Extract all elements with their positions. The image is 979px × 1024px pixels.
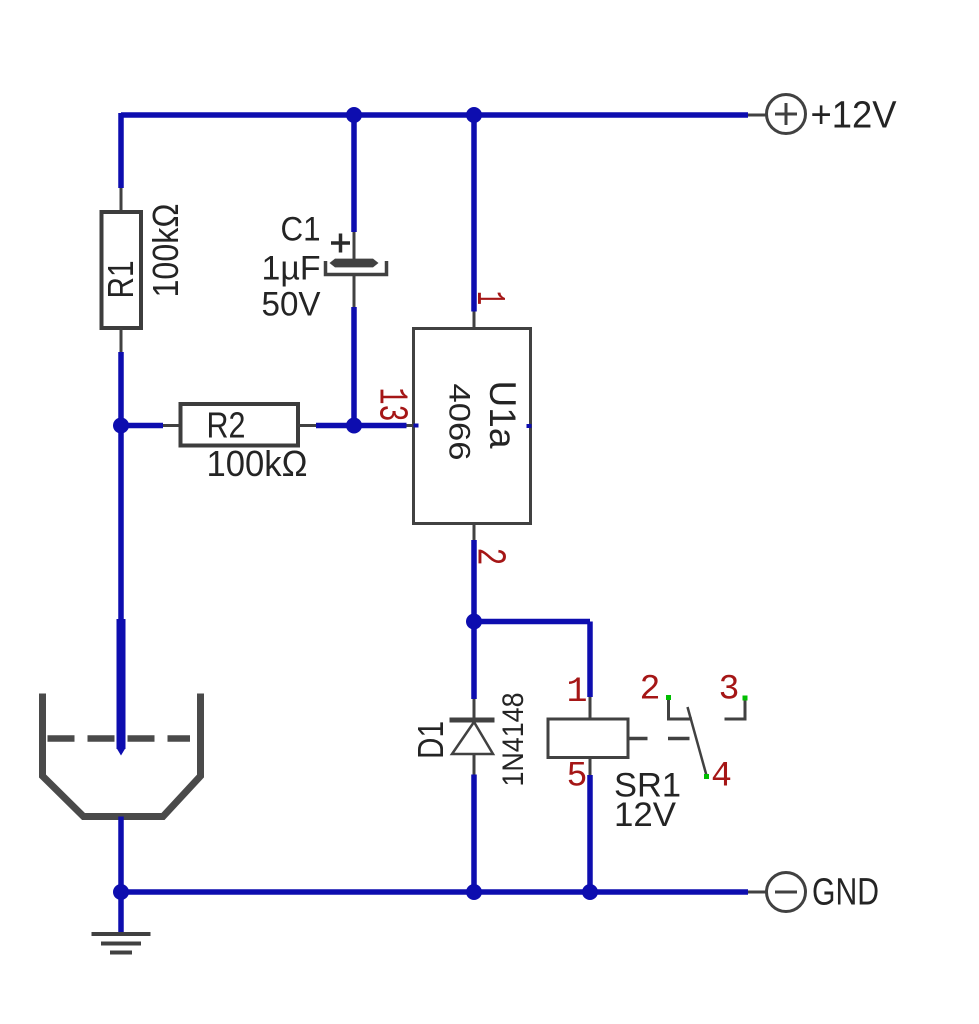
svg-text:1µF: 1µF xyxy=(262,250,321,288)
wire relay pin5 to ground rail xyxy=(587,775,593,892)
node contact 4 green xyxy=(704,774,709,779)
op-amp U1a box 4066 xyxy=(414,329,531,524)
svg-text:13: 13 xyxy=(368,388,414,422)
sensor cup outline xyxy=(43,694,201,817)
pin +12V supply stub xyxy=(748,114,767,117)
svg-text:+12V: +12V xyxy=(811,95,898,137)
svg-text:50V: 50V xyxy=(262,286,321,324)
wire C1 to R2 net xyxy=(351,307,357,426)
resistor R1 xyxy=(102,212,142,328)
svg-text:R2: R2 xyxy=(207,405,246,446)
relay coil to contact dashed link xyxy=(628,737,690,741)
svg-text:4: 4 xyxy=(711,757,732,797)
relay contact 2 terminal xyxy=(669,699,693,719)
relay contact 3 terminal xyxy=(725,699,746,719)
pin C1 top xyxy=(353,232,356,259)
pin R2 left xyxy=(163,424,181,427)
junction node ground rail / relay xyxy=(582,884,598,900)
capacitor C1 positive plate xyxy=(330,259,379,268)
wire left vertical from rail to R1 xyxy=(118,113,124,188)
wire D1 branch down xyxy=(471,622,477,700)
pin U1a 1 stub xyxy=(473,312,476,329)
svg-text:U1a: U1a xyxy=(482,381,523,449)
wire R2 left xyxy=(121,423,163,429)
wire U1a pin2 down xyxy=(471,540,477,622)
diode D1 triangle xyxy=(452,722,493,754)
svg-text:C1: C1 xyxy=(281,211,321,249)
capacitor C1 negative plate bracket xyxy=(326,261,387,275)
ground symbol xyxy=(92,934,151,953)
svg-text:4066: 4066 xyxy=(443,384,476,461)
pin C1 bottom xyxy=(353,275,356,308)
wire D1 to ground rail xyxy=(471,775,477,893)
node right edge tick xyxy=(527,424,532,428)
wire relay branch down xyxy=(587,622,593,698)
junction node R2 / C1 xyxy=(346,418,362,434)
junction node ground rail / D1 xyxy=(466,884,482,900)
svg-text:1: 1 xyxy=(465,291,511,305)
svg-text:GND: GND xyxy=(812,872,879,914)
junction node left rail / R2 xyxy=(113,418,129,434)
junction node top rail / U1a pin1 xyxy=(466,107,482,123)
wire U1a pin1 branch xyxy=(471,115,477,312)
pin GND supply stub xyxy=(748,891,767,894)
wire ground rail xyxy=(121,889,748,895)
wire R2 to U1a pin13 xyxy=(316,423,407,429)
node contact 3 green xyxy=(743,696,748,701)
svg-text:12V: 12V xyxy=(614,796,676,834)
svg-text:3: 3 xyxy=(718,670,739,710)
node pin13 tick xyxy=(414,424,419,428)
pin U1a 13 xyxy=(407,424,414,427)
relay SR1 coil box xyxy=(548,719,628,758)
junction node pin2 / relay branch xyxy=(466,614,482,630)
pin D1 anode xyxy=(473,754,476,775)
pin R1 top xyxy=(120,188,123,212)
capacitor C1 plus sign xyxy=(331,234,350,253)
pin relay coil 5 xyxy=(589,758,592,776)
power symbol +12V circle xyxy=(767,95,806,134)
sensor water level dashed line xyxy=(48,735,191,742)
node contact 2 green xyxy=(666,695,671,700)
wire left vertical R1 to probe xyxy=(118,352,124,620)
svg-text:5: 5 xyxy=(566,757,587,797)
pin D1 cathode xyxy=(473,699,476,718)
resistor R2 xyxy=(181,404,299,446)
pin R1 bottom xyxy=(120,328,123,352)
wire top rail +12V net xyxy=(121,112,748,118)
svg-text:100kΩ: 100kΩ xyxy=(145,204,186,298)
relay lever xyxy=(688,707,707,776)
pin U1a 2 stub xyxy=(473,524,476,541)
wire C1 branch top xyxy=(351,115,357,232)
junction node top rail / C1 xyxy=(346,107,362,123)
pin relay coil 1 xyxy=(589,697,592,719)
svg-text:100kΩ: 100kΩ xyxy=(207,443,308,484)
wire cup bottom to ground rail xyxy=(118,817,124,893)
svg-text:2: 2 xyxy=(639,670,660,710)
svg-text:D1: D1 xyxy=(410,721,451,759)
svg-text:1: 1 xyxy=(566,672,587,712)
junction node ground rail / probe xyxy=(113,884,129,900)
probe electrode (thick pin) xyxy=(117,619,126,749)
svg-text:1N4148: 1N4148 xyxy=(497,693,530,787)
diode D1 cathode bar xyxy=(450,718,495,723)
power symbol GND circle xyxy=(767,873,806,912)
wire ground stem xyxy=(118,892,124,934)
pin R2 right xyxy=(298,424,316,427)
wire pin2 node to relay branch xyxy=(474,619,590,625)
svg-text:R1: R1 xyxy=(100,261,141,299)
